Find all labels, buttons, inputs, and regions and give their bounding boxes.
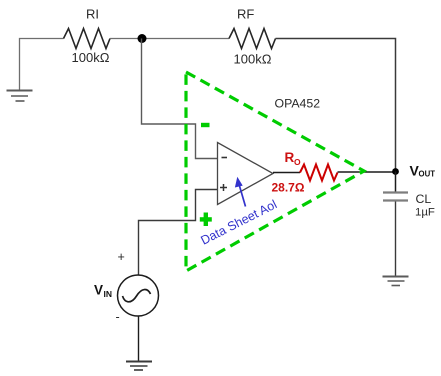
wire: top net from left ground to RI bbox=[20, 39, 64, 91]
resistor Ro (red) bbox=[300, 165, 338, 181]
svg-text:R: R bbox=[285, 150, 295, 165]
svg-text:28.7Ω: 28.7Ω bbox=[272, 181, 305, 195]
green minus marker bbox=[201, 123, 210, 127]
wire: Ro to output node bbox=[338, 171, 396, 173]
ground (right, under CL) bbox=[383, 277, 409, 286]
svg-text:+: + bbox=[118, 250, 125, 264]
node: Vout junction dot bbox=[392, 168, 399, 175]
svg-text:OPA452: OPA452 bbox=[275, 97, 321, 111]
svg-text:RI: RI bbox=[86, 7, 99, 22]
svg-text:OUT: OUT bbox=[419, 170, 436, 179]
svg-text:V: V bbox=[94, 283, 103, 298]
node: summing junction dot bbox=[138, 34, 147, 43]
wire: op-amp output to Ro bbox=[273, 172, 300, 174]
source VIN bbox=[118, 275, 159, 316]
ground (under VIN) bbox=[126, 362, 152, 371]
capacitor CL bbox=[383, 193, 408, 201]
wire: RI to RF through node bbox=[110, 38, 229, 40]
resistor RI bbox=[64, 29, 111, 49]
wire: RF to right vertical feedback bbox=[276, 39, 396, 172]
svg-text:100kΩ: 100kΩ bbox=[72, 50, 110, 65]
pin label minus bbox=[222, 157, 228, 159]
ground (left) bbox=[7, 91, 33, 102]
annotation arrow (blue) bbox=[239, 184, 246, 207]
sine wave inside VIN bbox=[123, 290, 151, 302]
svg-text:RF: RF bbox=[237, 7, 254, 22]
svg-text:IN: IN bbox=[104, 289, 113, 299]
wire: VIN bottom to ground bbox=[138, 316, 140, 361]
wire: node to inverting input (step) bbox=[142, 39, 218, 159]
svg-text:-: - bbox=[116, 310, 120, 324]
pin label plus bbox=[220, 184, 227, 191]
svg-text:O: O bbox=[294, 157, 301, 167]
wire: Vin to non-inverting input (step) bbox=[139, 190, 218, 276]
svg-text:100kΩ: 100kΩ bbox=[234, 52, 272, 67]
op-amp U1 OPA452 bbox=[218, 143, 274, 205]
green plus marker bbox=[200, 213, 212, 227]
resistor RF bbox=[229, 29, 276, 49]
svg-text:CL: CL bbox=[416, 192, 432, 206]
wire: Vout node down to CL bbox=[395, 172, 397, 193]
wire: CL to ground bbox=[395, 202, 397, 277]
svg-text:1µF: 1µF bbox=[415, 207, 435, 219]
data sheet Aol boundary (green dashed triangle) bbox=[186, 72, 364, 271]
